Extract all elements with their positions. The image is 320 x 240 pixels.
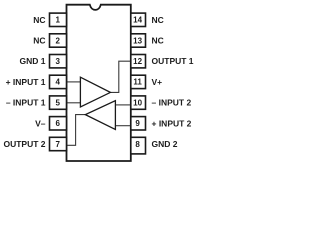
- svg-text:+ INPUT 1: + INPUT 1: [6, 77, 46, 87]
- svg-text:3: 3: [55, 57, 60, 66]
- svg-text:NC: NC: [33, 15, 45, 25]
- svg-text:OUTPUT 2: OUTPUT 2: [3, 139, 45, 149]
- svg-text:– INPUT 2: – INPUT 2: [152, 98, 192, 108]
- svg-text:V+: V+: [152, 77, 163, 87]
- svg-text:GND 2: GND 2: [152, 139, 178, 149]
- svg-text:NC: NC: [152, 15, 164, 25]
- svg-text:7: 7: [55, 140, 60, 149]
- svg-text:6: 6: [55, 119, 60, 128]
- svg-text:NC: NC: [152, 36, 164, 46]
- svg-text:14: 14: [133, 16, 142, 25]
- svg-text:NC: NC: [33, 36, 45, 46]
- svg-text:– INPUT 1: – INPUT 1: [6, 98, 46, 108]
- svg-text:12: 12: [133, 57, 142, 66]
- svg-text:13: 13: [133, 36, 142, 45]
- svg-text:+ INPUT 2: + INPUT 2: [152, 118, 192, 128]
- svg-text:2: 2: [55, 36, 60, 45]
- svg-text:GND 1: GND 1: [20, 56, 46, 66]
- svg-text:8: 8: [135, 140, 140, 149]
- svg-text:1: 1: [55, 16, 60, 25]
- svg-text:V–: V–: [35, 118, 46, 128]
- svg-text:OUTPUT 1: OUTPUT 1: [152, 56, 194, 66]
- svg-text:10: 10: [133, 98, 142, 107]
- svg-text:11: 11: [133, 78, 142, 87]
- svg-text:9: 9: [135, 119, 140, 128]
- svg-text:5: 5: [55, 98, 60, 107]
- svg-text:4: 4: [55, 78, 60, 87]
